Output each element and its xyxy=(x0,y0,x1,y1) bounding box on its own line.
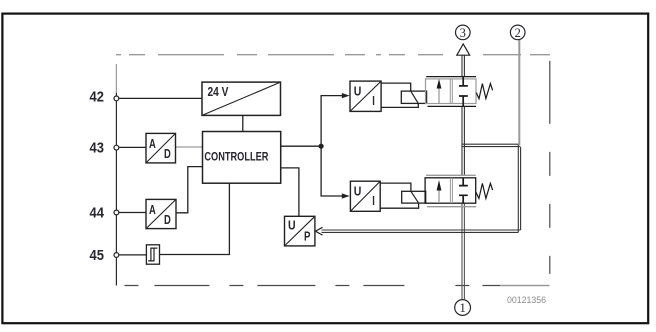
wire hysteresis block to controller bottom xyxy=(160,183,230,254)
svg-text:D: D xyxy=(164,146,171,161)
svg-text:U: U xyxy=(354,84,362,99)
dashed enclosure left edge xyxy=(115,64,117,93)
valve 1 body (gray box, black rails) xyxy=(426,77,477,107)
terminal circle 44 xyxy=(114,210,119,215)
svg-text:A: A xyxy=(149,136,156,151)
svg-text:2: 2 xyxy=(515,26,521,40)
wire terminal 42 to 24V block xyxy=(119,97,203,99)
wire A/D 2 to controller left xyxy=(176,167,203,213)
wire node up to U/I 1 with arrow xyxy=(321,96,342,147)
hysteresis block xyxy=(146,245,159,264)
port 2 gray supply line xyxy=(518,40,520,146)
solenoid 1 (top valve) xyxy=(381,83,426,107)
A/D converter 2 xyxy=(146,199,176,228)
svg-text:I: I xyxy=(372,193,375,208)
svg-text:1: 1 xyxy=(459,300,466,315)
svg-text:A: A xyxy=(149,202,156,217)
wire 24V block to controller top xyxy=(242,115,244,131)
wire controller right to U/P top xyxy=(281,168,299,216)
svg-text:P: P xyxy=(304,228,311,243)
dashed enclosure top edge left part xyxy=(116,54,443,56)
controller block U1 xyxy=(203,132,281,184)
svg-text:CONTROLLER: CONTROLLER xyxy=(204,149,268,163)
hydraulic line valve 1 to valve 2 (double line) xyxy=(462,106,464,175)
svg-text:00121356: 00121356 xyxy=(507,295,546,306)
svg-text:3: 3 xyxy=(460,26,466,40)
svg-text:45: 45 xyxy=(90,248,104,264)
node junction dot xyxy=(319,144,324,149)
open arrowhead into U/P xyxy=(315,227,322,235)
hydraulic line valve 2 to port 1 (double line) xyxy=(462,203,464,299)
svg-text:24 V: 24 V xyxy=(208,84,229,99)
dashed enclosure top edge right part xyxy=(483,54,550,56)
wire terminal 43 to A/D 1 xyxy=(119,146,147,148)
svg-text:D: D xyxy=(164,212,171,227)
24V power supply block xyxy=(202,82,281,115)
branch double line to port 2 xyxy=(462,144,520,146)
wire terminal 44 to A/D 2 xyxy=(119,212,147,214)
pressure sense line to U/P (double with open arrow) xyxy=(322,230,521,232)
dashed enclosure right edge xyxy=(549,61,551,286)
port 3 circle xyxy=(456,25,471,40)
valve 2 body (black box, gray rails) xyxy=(425,175,476,206)
U/I converter 2 xyxy=(350,181,380,211)
solenoid 2 (bottom valve) xyxy=(380,183,426,208)
U/P pressure transducer xyxy=(285,216,315,246)
svg-text:43: 43 xyxy=(90,141,104,157)
hydraulic line port 3 to valve 1 (double line) xyxy=(462,55,464,76)
port 3 arrow (open triangle) xyxy=(457,44,470,55)
port 2 circle xyxy=(510,25,525,40)
dashed enclosure bottom edge xyxy=(116,285,500,287)
svg-text:U: U xyxy=(288,217,296,232)
U/I converter 1 xyxy=(350,81,381,111)
wire controller right to node xyxy=(281,145,321,147)
wire node down to U/I 2 with arrow xyxy=(321,146,342,196)
wire A/D 1 to controller (gray) xyxy=(176,146,203,148)
svg-text:42: 42 xyxy=(90,89,104,105)
wire terminal 45 to hysteresis block xyxy=(119,254,147,256)
spring valve 1 xyxy=(476,84,492,99)
terminal circle 43 xyxy=(114,145,119,150)
terminal circle 45 xyxy=(114,253,119,258)
terminal circle 42 xyxy=(114,96,119,101)
svg-text:I: I xyxy=(372,93,375,108)
pressure sense line down right side (double) xyxy=(518,144,520,232)
spring valve 2 xyxy=(476,183,493,198)
svg-text:44: 44 xyxy=(90,206,105,222)
A/D converter 1 xyxy=(146,133,176,163)
svg-text:U: U xyxy=(354,184,362,199)
port 1 circle xyxy=(455,300,471,316)
